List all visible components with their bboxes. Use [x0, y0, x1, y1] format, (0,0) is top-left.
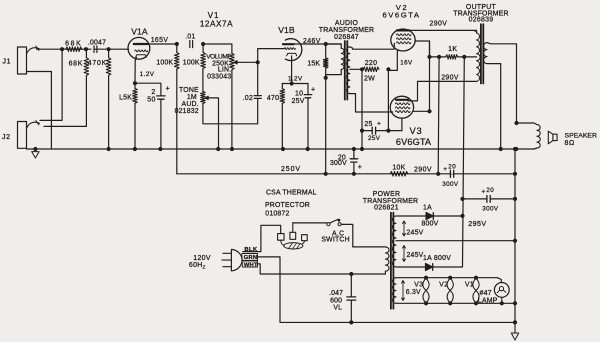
svg-text:J1: J1 — [3, 59, 12, 66]
wire V1B plate to 15K and transformer — [294, 43, 342, 45]
node 1K left / 290V drop — [437, 55, 441, 174]
label 290V (V3 plate) — [441, 75, 459, 82]
capacitor 10uF 25V (V1B cathode bypass) — [292, 84, 316, 150]
wire V3 plate — [408, 81, 477, 101]
svg-text:470K: 470K — [88, 60, 107, 67]
node 15K / primary bottom — [324, 76, 328, 80]
svg-text:+: + — [443, 166, 447, 173]
capacitor 20uF 300V (290V filter) — [442, 163, 459, 187]
resistor 100K (V1A plate load) — [156, 44, 179, 174]
svg-text:WHT: WHT — [244, 262, 258, 268]
svg-text:800V: 800V — [422, 221, 439, 228]
label GRN (boxed) — [242, 254, 258, 262]
wire secondary bottom to V3 grid — [350, 94, 393, 112]
AC plug 120V 60Hz — [189, 249, 242, 271]
svg-text:V1B: V1B — [278, 25, 295, 35]
svg-text:15K: 15K — [307, 60, 320, 67]
triode V1B — [278, 25, 302, 61]
svg-text:6V6GTA: 6V6GTA — [383, 11, 421, 20]
svg-text:290V: 290V — [441, 75, 459, 82]
svg-text:300V: 300V — [330, 160, 347, 167]
node 295V cap — [460, 197, 464, 201]
svg-text:2: 2 — [151, 89, 155, 96]
node speaker bottom / ground — [514, 147, 518, 151]
wire J1 tip to V1A grid — [37, 48, 129, 50]
node 250V / interstage feed — [324, 172, 328, 176]
label 1.2V (V1A) — [140, 71, 155, 78]
heater twisted pair V2 — [439, 276, 453, 306]
power transformer core — [391, 213, 394, 309]
wire secondary center tap — [350, 68, 362, 70]
node top-wire / 470K — [107, 47, 111, 51]
resistor 470 (V1B cathode) — [267, 84, 285, 150]
node screens / 1K wire — [427, 55, 431, 59]
svg-text:165V: 165V — [151, 37, 169, 44]
power transformer heater winding — [393, 278, 397, 304]
svg-text:245V: 245V — [407, 229, 424, 236]
svg-text:LAMP: LAMP — [478, 297, 498, 304]
label 290V (V2 plate) — [430, 20, 448, 27]
svg-text:+: + — [481, 189, 485, 196]
svg-text:68K: 68K — [69, 61, 83, 68]
svg-text:L5K: L5K — [119, 95, 132, 102]
label 246V — [303, 38, 321, 45]
wire switch to transformer primary — [341, 224, 353, 247]
wire protector to switch — [293, 222, 327, 224]
svg-text:6V6GTA: 6V6GTA — [396, 137, 432, 147]
audio transformer T1 026847 label — [319, 20, 374, 41]
svg-text:25V: 25V — [368, 135, 381, 142]
svg-text:026821: 026821 — [374, 204, 399, 211]
pilot lamp #47 — [478, 278, 509, 306]
wire V3 screen — [413, 41, 432, 113]
wire 15K to 250V bus — [325, 78, 327, 174]
wire V2 plate to output transformer — [409, 29, 476, 31]
resistor 1K (screen) — [430, 46, 477, 59]
capacitor 50uF (V1A cathode bypass) — [135, 83, 170, 149]
label 245V (lower) with arrow — [403, 246, 424, 262]
resistor 68K (series, J1) — [65, 41, 82, 52]
svg-text:+: + — [358, 164, 363, 171]
svg-text:8Ω: 8Ω — [565, 139, 575, 147]
svg-text:LIN.: LIN. — [218, 66, 231, 73]
node .01/100K-2 — [201, 42, 205, 46]
svg-text:V2: V2 — [439, 281, 448, 288]
svg-text:033043: 033043 — [207, 74, 231, 81]
svg-text:10K: 10K — [392, 165, 405, 172]
ground riser (right) — [513, 147, 517, 325]
triode V1A — [128, 26, 150, 59]
svg-text:SWITCH: SWITCH — [321, 237, 349, 244]
node 220 right / 16V — [386, 67, 390, 71]
label 16V — [400, 60, 413, 67]
pentode V2 — [383, 3, 421, 51]
svg-text:120V: 120V — [193, 255, 211, 262]
svg-text:68K: 68K — [65, 41, 82, 48]
svg-text:.01: .01 — [185, 34, 195, 41]
svg-text:AUDIO: AUDIO — [335, 20, 359, 27]
ground (input) — [32, 147, 39, 158]
node 295V rail — [460, 214, 464, 218]
wire WHT to transformer primary — [258, 264, 386, 274]
svg-text:1.2V: 1.2V — [288, 75, 303, 82]
svg-text:V3: V3 — [414, 282, 423, 289]
svg-text:1K: 1K — [448, 46, 457, 53]
audio transformer primary winding — [326, 44, 345, 78]
wire HV center tap to ground riser — [396, 239, 517, 243]
B+ riser 295V — [463, 57, 465, 267]
wire GRN to chassis ground — [258, 257, 281, 323]
label BLK — [244, 247, 257, 253]
wire to volume pot top — [203, 44, 232, 53]
speaker icon — [548, 131, 597, 147]
resistor 1.5K (V1A cathode) — [119, 83, 137, 149]
output transformer T2 026839 label — [453, 4, 508, 24]
svg-text:1A: 1A — [423, 205, 432, 212]
wire secondary top to V2 grid — [350, 43, 394, 49]
diode CR2 1A 800V — [396, 255, 463, 271]
svg-text:.0047: .0047 — [88, 40, 106, 47]
svg-text:25V: 25V — [292, 98, 305, 105]
resistor 220 2W — [363, 60, 379, 82]
svg-text:60H: 60H — [189, 262, 203, 269]
bottom ground bus — [280, 320, 515, 324]
wire J2 tip to 68K — [44, 76, 86, 127]
node 220 left — [360, 67, 364, 71]
wire input link to J2 switch — [40, 47, 64, 120]
output transformer secondary winding — [484, 43, 487, 64]
svg-text:1.2V: 1.2V — [140, 71, 155, 78]
label 6.3V with arrow — [402, 281, 421, 301]
audio transformer secondary winding — [347, 47, 350, 94]
svg-text:VL: VL — [333, 305, 342, 312]
svg-text:010872: 010872 — [265, 211, 289, 218]
svg-text:100K: 100K — [156, 60, 173, 67]
capacitor 20uF 300V (main filter) — [463, 187, 516, 212]
svg-text:20: 20 — [486, 187, 494, 194]
svg-text:J2: J2 — [2, 134, 11, 141]
svg-text:+: + — [311, 86, 316, 93]
250V bus wire — [177, 166, 515, 174]
svg-text:2W: 2W — [364, 75, 375, 82]
label WHT (boxed) — [242, 261, 258, 268]
power transformer T3 026821 label — [363, 191, 418, 211]
svg-text:CSA THERMAL: CSA THERMAL — [266, 190, 317, 197]
svg-text:16V: 16V — [400, 60, 413, 67]
capacitor .01 (coupling) — [185, 34, 195, 48]
svg-text:.02: .02 — [243, 95, 253, 102]
wire V3 cathode — [401, 118, 403, 130]
node cathode bus / V2V3 — [386, 69, 390, 132]
CSA thermal protector 010872 — [265, 190, 317, 249]
node plate/100K-1 — [175, 42, 179, 46]
input jack J1 — [3, 46, 40, 74]
label 245V (upper) with arrow — [403, 221, 424, 236]
svg-text:AUD.: AUD. — [182, 101, 199, 108]
wire V1A plate — [148, 43, 177, 45]
svg-text:300V: 300V — [482, 205, 499, 212]
svg-text:600: 600 — [330, 298, 342, 305]
svg-text:#47: #47 — [480, 290, 492, 297]
svg-text:GRN: GRN — [244, 255, 258, 261]
power transformer primary winding — [353, 247, 389, 274]
svg-text:Z: Z — [203, 265, 206, 271]
power transformer HV secondary winding — [392, 216, 396, 267]
wire OT secondary top to speaker — [487, 43, 519, 126]
wire OT secondary bottom to ground bus — [487, 64, 503, 151]
capacitor .047 600V VL (line bypass) — [329, 274, 356, 322]
svg-text:V3: V3 — [409, 125, 422, 136]
diode CR1 1A 800V — [396, 205, 463, 228]
node WHT / line cap — [349, 272, 353, 276]
label V1 12AX7A — [200, 11, 233, 29]
svg-text:220: 220 — [365, 60, 378, 67]
svg-text:+: + — [377, 120, 381, 127]
svg-text:295V: 295V — [468, 220, 486, 228]
wire J1 sleeve to ground bus — [27, 72, 52, 150]
svg-text:1A 800V: 1A 800V — [423, 255, 451, 262]
ground bus (main horizontal) — [27, 147, 535, 151]
svg-text:470: 470 — [267, 95, 279, 102]
svg-text:PROTECTOR: PROTECTOR — [265, 202, 310, 209]
svg-text:300V: 300V — [442, 181, 459, 188]
wire V1B cathode — [282, 56, 308, 86]
svg-text:021832: 021832 — [175, 108, 199, 115]
capacitor .02 (tone) — [243, 62, 262, 102]
label 290V (supply) — [414, 166, 432, 173]
svg-text:10: 10 — [295, 90, 303, 97]
svg-text:V1: V1 — [465, 281, 474, 288]
node 1K right / B+ riser — [462, 55, 466, 59]
speaker voice coil — [517, 123, 541, 149]
output transformer primary winding — [474, 30, 481, 81]
resistor 15K — [307, 44, 328, 78]
label 1.2V (V1B) — [288, 75, 303, 82]
ground (bottom right) — [511, 322, 518, 340]
node cathode bypass left — [360, 129, 364, 133]
svg-text:245V: 245V — [407, 252, 424, 259]
resistor 10K — [390, 165, 408, 177]
capacitor 25uF 25V (output cathode bypass) — [362, 120, 402, 141]
svg-text:026847: 026847 — [334, 34, 359, 41]
heater twisted pair V1 — [465, 276, 479, 306]
output transformer core — [481, 24, 483, 83]
heater twisted pair V3 — [414, 276, 429, 306]
svg-text:V1A: V1A — [131, 26, 148, 36]
svg-text:6.3V: 6.3V — [406, 289, 421, 296]
capacitor .0047 — [88, 40, 106, 53]
wire 220 node to ground — [360, 69, 364, 151]
input jack J2 — [2, 121, 40, 149]
node 250V / filter cap — [352, 172, 356, 176]
potentiometer TONE 1M — [175, 69, 258, 150]
potentiometer VOLUME 250K — [206, 53, 257, 149]
heater top wire — [396, 277, 498, 279]
node top-wire / 68K-2 — [84, 47, 88, 51]
pentode V3 — [390, 96, 432, 147]
wire V1A cathode — [133, 57, 137, 85]
AC switch S1 — [321, 219, 349, 244]
wire BLK to thermal protector — [243, 225, 281, 251]
label 165V — [151, 37, 169, 44]
svg-text:.047: .047 — [329, 290, 343, 297]
svg-text:250V: 250V — [281, 166, 301, 173]
svg-text:290V: 290V — [414, 166, 432, 173]
wire V2 cathode — [388, 51, 397, 71]
audio transformer core — [345, 41, 348, 100]
svg-text:VOLUME: VOLUME — [206, 53, 232, 60]
resistor 470K — [88, 49, 111, 149]
svg-text:290V: 290V — [430, 20, 448, 27]
svg-text:+: + — [166, 85, 171, 92]
resistor 100K (grid) — [183, 44, 206, 69]
node 290V / screen drop — [436, 172, 440, 176]
resistor 68K (vertical) — [69, 49, 89, 75]
svg-text:20: 20 — [448, 163, 456, 170]
wire V2 screen — [415, 41, 430, 57]
svg-text:100K: 100K — [183, 60, 200, 67]
svg-text:25: 25 — [364, 121, 372, 128]
wire wiper node to V1B grid — [258, 49, 285, 63]
node volume wiper / V1B grid — [256, 60, 260, 64]
node plate wire / 15K — [324, 42, 328, 46]
label 295V — [468, 220, 486, 228]
capacitor 20uF 300V (preamp filter) — [330, 147, 362, 174]
svg-text:50: 50 — [147, 97, 156, 104]
heater bottom wire — [396, 301, 517, 305]
svg-text:12AX7A: 12AX7A — [200, 20, 233, 29]
svg-text:026839: 026839 — [469, 17, 494, 24]
